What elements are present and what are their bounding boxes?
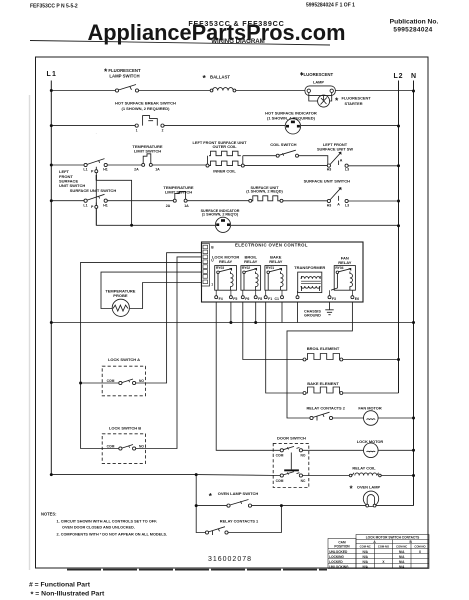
svg-text:RELAY COIL: RELAY COIL <box>352 465 376 470</box>
svg-text:N: N <box>411 73 416 80</box>
svg-text:GROUND: GROUND <box>304 313 321 317</box>
svg-text:N/A: N/A <box>362 550 368 554</box>
svg-text:COM: COM <box>107 445 115 449</box>
svg-text:LOCKED: LOCKED <box>329 560 343 564</box>
svg-text:2A: 2A <box>134 168 139 172</box>
svg-text:A: A <box>337 203 340 207</box>
svg-text:LIMIT SWITCH: LIMIT SWITCH <box>165 189 192 194</box>
svg-text:*: * <box>335 96 339 106</box>
svg-text:RY03: RY03 <box>216 266 224 270</box>
svg-text:L1: L1 <box>47 71 58 78</box>
svg-text:L3: L3 <box>345 168 349 172</box>
svg-text:LOCKING: LOCKING <box>329 555 344 559</box>
svg-text:E6: E6 <box>355 297 359 301</box>
svg-text:LOCK MOTOR SWITCH CONTACTS: LOCK MOTOR SWITCH CONTACTS <box>366 535 420 539</box>
svg-text:P: P <box>91 169 94 173</box>
svg-text:H1: H1 <box>103 203 108 207</box>
svg-text:NOTES:: NOTES: <box>41 511 56 516</box>
svg-text:P: P <box>91 205 94 209</box>
svg-text:L2: L2 <box>394 73 404 80</box>
svg-text:N/A: N/A <box>399 560 405 564</box>
svg-text:COM-NO: COM-NO <box>378 545 389 549</box>
svg-text:COM-NC: COM-NC <box>360 545 371 549</box>
svg-text:*: * <box>203 73 207 83</box>
svg-text:LAMP: LAMP <box>313 79 324 84</box>
svg-text:DOOR SWITCH: DOOR SWITCH <box>277 436 306 441</box>
svg-text:Publication No.: Publication No. <box>390 19 439 26</box>
svg-text:X: X <box>419 550 422 554</box>
svg-text:N/A: N/A <box>362 555 368 559</box>
svg-text:UNLOCKED: UNLOCKED <box>329 550 348 554</box>
svg-text:SURFACE UNIT SWITCH: SURFACE UNIT SWITCH <box>70 188 117 193</box>
svg-text:COM: COM <box>276 454 284 458</box>
svg-text:(1 SHOWN, 2 REQD): (1 SHOWN, 2 REQD) <box>246 190 283 194</box>
svg-text:RELAY: RELAY <box>269 259 283 264</box>
svg-text:BROIL ELEMENT: BROIL ELEMENT <box>307 346 340 351</box>
svg-text:N/A: N/A <box>399 555 405 559</box>
svg-text:5995284024 F 1 OF 1: 5995284024 F 1 OF 1 <box>306 3 355 9</box>
svg-text:F3: F3 <box>332 297 336 301</box>
svg-text:316002078: 316002078 <box>208 556 252 563</box>
svg-text:(1 SHOWN, 2 REQ'D): (1 SHOWN, 2 REQ'D) <box>202 213 239 217</box>
svg-text:F8: F8 <box>258 297 262 301</box>
svg-text:UNLOCKING: UNLOCKING <box>329 565 349 569</box>
svg-text:FEF353CC & FEF389CC: FEF353CC & FEF389CC <box>188 19 284 28</box>
svg-text:INNER COIL: INNER COIL <box>213 169 236 174</box>
svg-text:FLUORESCENT: FLUORESCENT <box>342 96 372 101</box>
svg-text:RELAY: RELAY <box>338 260 352 265</box>
svg-text:* = Non-Illustrated Part: * = Non-Illustrated Part <box>31 590 105 599</box>
svg-text:*: * <box>209 492 213 501</box>
svg-text:SURFACE UNIT SWITCH: SURFACE UNIT SWITCH <box>304 179 351 184</box>
svg-text:LOCK MOTOR: LOCK MOTOR <box>357 439 384 444</box>
svg-text:OUTER COIL: OUTER COIL <box>213 144 238 149</box>
svg-text:RY01: RY01 <box>266 266 274 270</box>
svg-text:FLUORESCENT: FLUORESCENT <box>301 72 334 77</box>
svg-text:POSITION: POSITION <box>334 544 350 548</box>
svg-text:STARTER: STARTER <box>345 101 363 106</box>
svg-text:5995284024: 5995284024 <box>393 27 432 34</box>
svg-text:1A: 1A <box>184 204 189 208</box>
svg-text:OVEN DOOR CLOSED AND UNLOCKED.: OVEN DOOR CLOSED AND UNLOCKED. <box>62 525 135 529</box>
svg-text:2A: 2A <box>166 204 171 208</box>
svg-text:FEF353CC P N 5-5-2: FEF353CC P N 5-5-2 <box>30 4 78 10</box>
svg-text:LAMP SWITCH: LAMP SWITCH <box>109 73 139 78</box>
svg-text:H3: H3 <box>327 203 332 207</box>
svg-text:RY02: RY02 <box>242 266 250 270</box>
svg-text:1: 1 <box>211 283 213 287</box>
svg-text:BAKE ELEMENT: BAKE ELEMENT <box>307 381 339 386</box>
svg-text:C1: C1 <box>275 297 280 301</box>
svg-text:COM: COM <box>276 479 284 483</box>
svg-text:2: 2 <box>162 129 164 133</box>
svg-text:COM-NO: COM-NO <box>414 545 425 549</box>
svg-text:FAN MOTOR: FAN MOTOR <box>358 405 381 410</box>
svg-text:RELAY CONTACTS 1: RELAY CONTACTS 1 <box>220 518 259 523</box>
svg-text:# = Functional Part: # = Functional Part <box>29 582 91 589</box>
svg-text:COIL SWITCH: COIL SWITCH <box>270 142 296 147</box>
svg-text:TRANSFORMER: TRANSFORMER <box>294 265 325 270</box>
svg-text:*: * <box>350 485 354 494</box>
svg-text:SURFACE UNIT SW: SURFACE UNIT SW <box>317 146 353 151</box>
svg-text:L1: L1 <box>83 203 87 207</box>
svg-text:OVEN LAMP: OVEN LAMP <box>357 485 381 490</box>
svg-text:BALLAST: BALLAST <box>210 75 230 80</box>
svg-text:COM-NC: COM-NC <box>396 545 407 549</box>
svg-text:L3: L3 <box>345 203 349 207</box>
svg-text:N/A: N/A <box>362 560 368 564</box>
svg-text:N/A: N/A <box>399 550 405 554</box>
svg-text:LOCK SWITCH B: LOCK SWITCH B <box>109 426 141 431</box>
svg-text:LIMIT SWITCH: LIMIT SWITCH <box>134 149 161 154</box>
svg-text:OVEN LAMP SWITCH: OVEN LAMP SWITCH <box>218 491 259 496</box>
svg-text:N/A: N/A <box>362 565 368 569</box>
svg-text:RELAY: RELAY <box>219 259 233 264</box>
svg-text:H1: H1 <box>103 168 108 172</box>
svg-text:L1: L1 <box>83 168 87 172</box>
svg-text:ELECTRONIC OVEN CONTROL: ELECTRONIC OVEN CONTROL <box>235 243 308 248</box>
svg-text:2. COMPONENTS WITH * DO NOT AP: 2. COMPONENTS WITH * DO NOT APPEAR ON AL… <box>57 532 168 536</box>
svg-text:NO: NO <box>139 445 144 449</box>
svg-text:F1: F1 <box>268 297 272 301</box>
svg-text:X: X <box>382 560 385 564</box>
svg-text:RELAY CONTACTS 2: RELAY CONTACTS 2 <box>306 405 345 410</box>
svg-text:RY04: RY04 <box>335 266 343 270</box>
svg-text:(1 SHOWN, 4 REQUIRED): (1 SHOWN, 4 REQUIRED) <box>267 116 316 121</box>
svg-text:NO: NO <box>139 379 144 383</box>
svg-text:PROBE: PROBE <box>113 293 128 298</box>
svg-text:NO: NO <box>301 454 306 458</box>
svg-text:B: B <box>211 246 214 250</box>
svg-text:COM: COM <box>107 379 115 383</box>
svg-text:F4: F4 <box>219 297 223 301</box>
svg-text:LOCK SWITCH A: LOCK SWITCH A <box>108 357 140 362</box>
svg-text:WIRING DIAGRAM: WIRING DIAGRAM <box>211 38 264 45</box>
svg-text:A: A <box>340 159 343 163</box>
svg-text:1. CIRCUIT SHOWN WITH ALL CONT: 1. CIRCUIT SHOWN WITH ALL CONTROLS SET T… <box>57 519 158 523</box>
svg-text:NC: NC <box>301 479 306 483</box>
svg-text:1: 1 <box>136 129 138 133</box>
svg-text:F6: F6 <box>245 297 249 301</box>
svg-text:1A: 1A <box>155 168 160 172</box>
svg-text:(1 SHOWN, 2 REQUIRED): (1 SHOWN, 2 REQUIRED) <box>121 106 170 111</box>
svg-text:F5: F5 <box>233 297 237 301</box>
svg-text:RELAY: RELAY <box>244 259 258 264</box>
svg-text:H3: H3 <box>327 168 332 172</box>
svg-text:N/A: N/A <box>399 565 405 569</box>
